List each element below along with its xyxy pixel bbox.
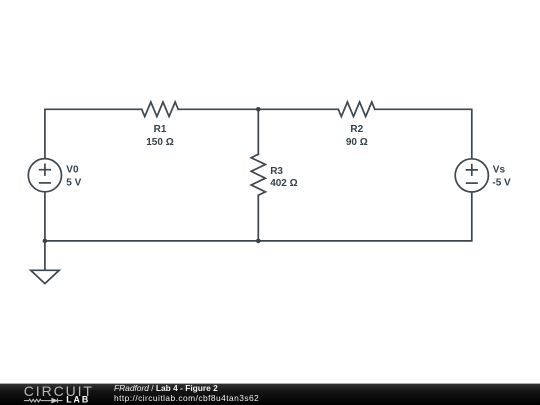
wire node B to node C <box>45 240 258 242</box>
svg-text:R1: R1 <box>154 124 167 135</box>
label Vs value -5 V <box>492 165 511 189</box>
node C (ground junction) <box>43 239 48 244</box>
footer bar <box>0 384 540 405</box>
wire V0 top lead to R1 <box>45 109 142 158</box>
CircuitLab logo resistor-diode symbol <box>24 398 63 402</box>
label V0 value 5 V <box>66 165 81 189</box>
wire node A to R2 <box>258 108 338 110</box>
wire R1 to node A <box>178 108 258 110</box>
node B (bottom junction) <box>256 239 261 244</box>
label R1 value 150 ohm <box>146 124 173 148</box>
svg-text:5 V: 5 V <box>66 178 81 189</box>
svg-text:R2: R2 <box>350 124 363 135</box>
svg-text:-5 V: -5 V <box>492 178 511 189</box>
svg-text:402 Ω: 402 Ω <box>270 178 297 189</box>
wire Vs bottom lead to node B <box>258 192 472 241</box>
ground <box>31 241 59 284</box>
wire node A to R3 top <box>257 109 259 154</box>
svg-text:R3: R3 <box>270 166 283 177</box>
svg-text:Vs: Vs <box>493 165 506 176</box>
svg-text:V0: V0 <box>66 165 79 176</box>
resistor R1 <box>142 102 179 117</box>
voltage source V0 <box>28 159 61 192</box>
svg-text:FRadford / Lab 4 - Figure 2: FRadford / Lab 4 - Figure 2 <box>114 383 218 393</box>
wire R2 to Vs top lead <box>375 109 472 159</box>
svg-text:LAB: LAB <box>66 394 90 404</box>
node A (top junction) <box>256 107 261 112</box>
wire V0 bottom lead <box>44 192 46 241</box>
label R3 value 402 ohm <box>270 166 297 189</box>
svg-text:90 Ω: 90 Ω <box>346 137 368 148</box>
resistor R2 <box>338 102 375 117</box>
label R2 value 90 ohm <box>346 124 368 148</box>
svg-text:150 Ω: 150 Ω <box>146 137 173 148</box>
wire R3 bottom to node B <box>257 195 259 241</box>
voltage source Vs <box>455 159 488 192</box>
svg-text:http://circuitlab.com/cbf8u4ta: http://circuitlab.com/cbf8u4tan3s62 <box>114 393 259 403</box>
resistor R3 <box>251 154 265 195</box>
